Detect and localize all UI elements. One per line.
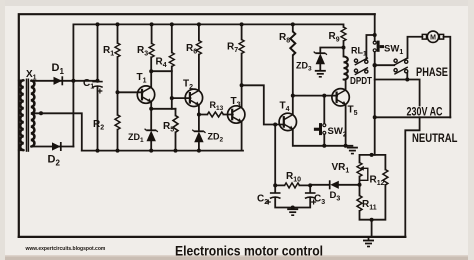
svg-text:230V AC: 230V AC xyxy=(407,105,443,119)
svg-text:DPDT: DPDT xyxy=(350,75,372,87)
svg-text:NEUTRAL: NEUTRAL xyxy=(412,131,458,145)
svg-text:PHASE: PHASE xyxy=(416,65,448,79)
svg-text:Electronics motor control: Electronics motor control xyxy=(175,243,323,259)
svg-text:www.expertcircuits.blogspot.co: www.expertcircuits.blogspot.com xyxy=(25,246,106,252)
svg-text:M: M xyxy=(430,34,436,41)
